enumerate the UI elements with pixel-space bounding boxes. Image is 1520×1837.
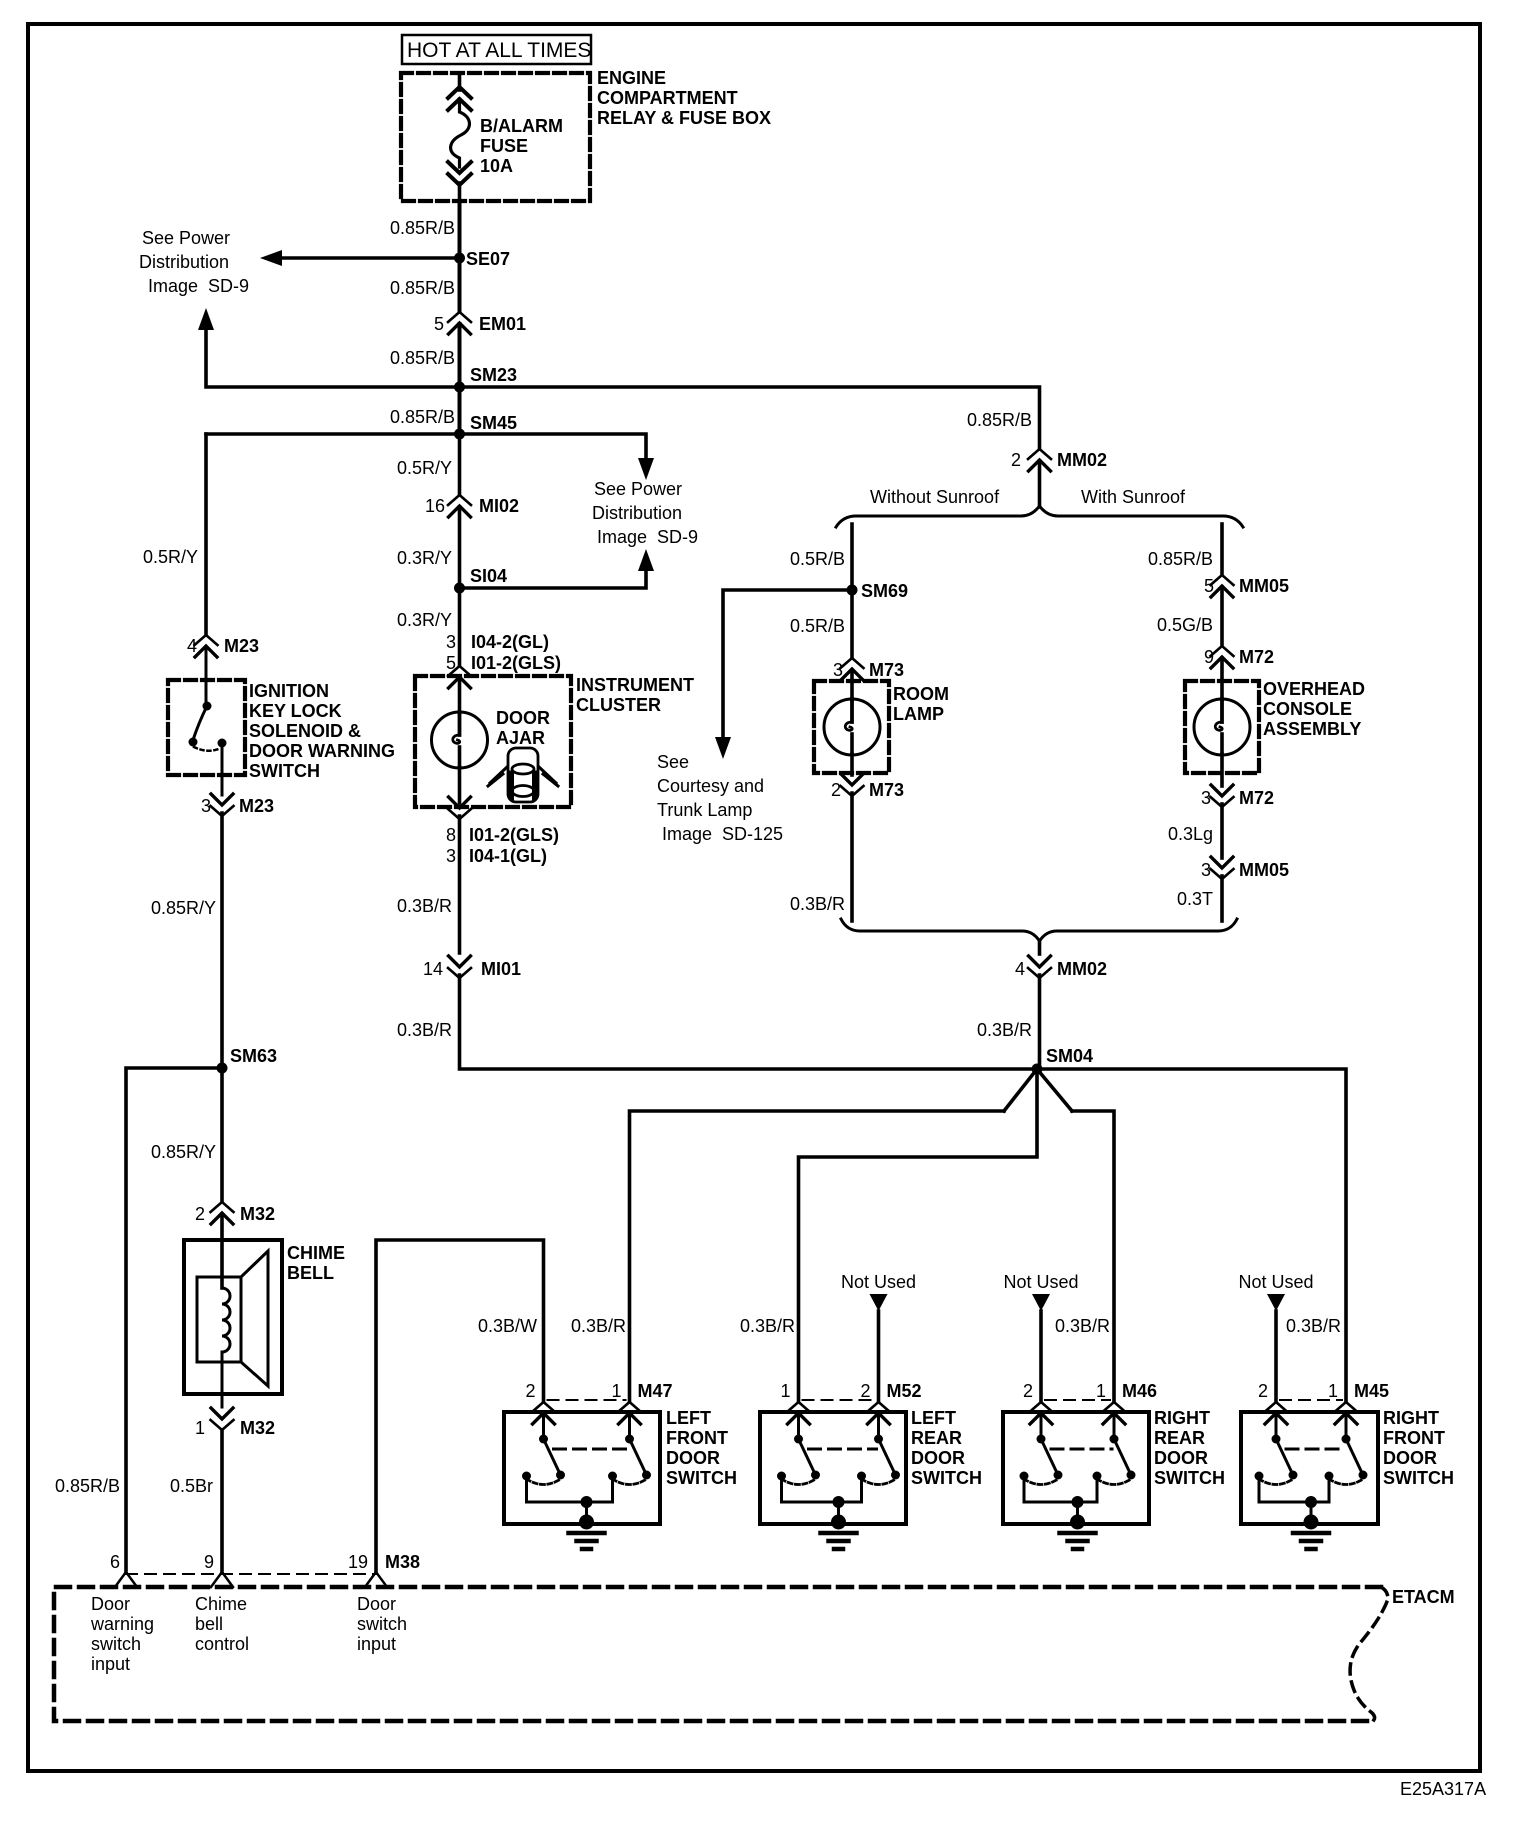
chime bell box (184, 1240, 282, 1394)
room lamp bulb (824, 699, 880, 755)
wire SM69 to courtesy arrow (723, 590, 852, 737)
door ajar car icon (488, 748, 558, 802)
svg-text:M45: M45 (1354, 1381, 1389, 1401)
connector MI01 pin 14 (448, 956, 471, 978)
svg-text:SE07: SE07 (466, 249, 510, 269)
wire 0.3B/R MI01 to SM04 (460, 975, 1038, 1069)
M52 right switch dotted travel arc (862, 1479, 896, 1485)
pin 1 entry chevrons of M47 (618, 1402, 641, 1424)
wire merge brace to MM02-4 (1038, 941, 1042, 954)
svg-text:MI01: MI01 (481, 959, 521, 979)
svg-text:Image SD-9: Image SD-9 (597, 527, 698, 547)
wire 0.85R/B fuse to SE07 (458, 201, 462, 258)
M47 right switch lever end dot (642, 1471, 651, 1480)
svg-text:See Power: See Power (594, 479, 682, 499)
component label LEFT REAR DOOR SWITCH (911, 1408, 982, 1488)
svg-text:DOOR: DOOR (1383, 1448, 1437, 1468)
M45 left switch lever end dot (1289, 1471, 1298, 1480)
M52 ground bus (782, 1501, 862, 1504)
wire from fuse to box edge (458, 183, 462, 201)
svg-text:6: 6 (110, 1552, 120, 1572)
svg-text:With Sunroof: With Sunroof (1081, 487, 1186, 507)
pin 1 entry chevrons of M45 (1335, 1402, 1358, 1424)
door switch M45 box (1241, 1412, 1378, 1524)
svg-text:See Power: See Power (142, 228, 230, 248)
note See Courtesy and Trunk Lamp Image SD-125 (657, 752, 783, 844)
instrument cluster exit chevrons (448, 797, 471, 819)
svg-text:1: 1 (611, 1381, 621, 1401)
M52 right switch contact dot (857, 1472, 866, 1481)
svg-text:INSTRUMENT: INSTRUMENT (576, 675, 694, 695)
M46 left switch common dot (1037, 1435, 1046, 1444)
M45 right switch contact dot (1325, 1472, 1334, 1481)
merge brace to MM02 pin 4 (841, 919, 1237, 941)
svg-text:RIGHT: RIGHT (1154, 1408, 1210, 1428)
wire not used to M52 pin2 (877, 1311, 881, 1401)
M46 right switch lever end dot (1127, 1471, 1136, 1480)
ETACM box (dashed) (54, 1587, 1381, 1721)
M45 right switch lever end dot (1359, 1471, 1368, 1480)
svg-text:M72: M72 (1239, 647, 1274, 667)
connector MM02 pin 4 (1028, 956, 1051, 978)
wire ignition switch out (221, 746, 224, 795)
M45 left switch contact dot (1255, 1472, 1264, 1481)
wire into ignition switch (205, 647, 208, 703)
svg-text:0.5R/Y: 0.5R/Y (143, 547, 198, 567)
svg-text:CHIME: CHIME (287, 1243, 345, 1263)
svg-text:0.3B/R: 0.3B/R (1286, 1316, 1341, 1336)
wire 0.5R/Y SM45 to M23 (204, 434, 208, 634)
wire MM02 to split brace (1038, 461, 1042, 507)
wire 0.3B/R room lamp to merge brace (850, 793, 854, 921)
M52 right contact drop wire (860, 1480, 863, 1502)
svg-text:Distribution: Distribution (139, 252, 229, 272)
M46 mechanical link dashed (1051, 1448, 1112, 1451)
svg-text:2: 2 (860, 1381, 870, 1401)
svg-text:0.85R/Y: 0.85R/Y (151, 898, 216, 918)
svg-text:0.3B/R: 0.3B/R (977, 1020, 1032, 1040)
M47 right switch contact dot (608, 1472, 617, 1481)
wire SM04 run to M47 pin1 (630, 1111, 1005, 1401)
svg-text:0.85R/B: 0.85R/B (55, 1476, 120, 1496)
wire 0.3R/Y MI02 to SI04 (458, 507, 462, 588)
svg-text:Trunk Lamp: Trunk Lamp (657, 800, 752, 820)
svg-text:2: 2 (525, 1381, 535, 1401)
svg-text:CLUSTER: CLUSTER (576, 695, 661, 715)
door switch M46 connector dashed link (1045, 1399, 1110, 1401)
svg-text:SM04: SM04 (1046, 1046, 1093, 1066)
wire room lamp bulb to exit (850, 754, 854, 775)
value label B/ALARM FUSE 10A (480, 116, 563, 176)
svg-text:ROOM: ROOM (893, 684, 949, 704)
ignition key lock solenoid & door warning switch box (dashed) (168, 680, 245, 775)
M46 left switch contact dot (1020, 1472, 1029, 1481)
svg-text:I01-2(GLS): I01-2(GLS) (471, 653, 561, 673)
component label LEFT FRONT DOOR SWITCH (666, 1408, 737, 1488)
wire SM04 run to M46 pin1 (1072, 1111, 1114, 1401)
svg-text:M73: M73 (869, 660, 904, 680)
pin 1 internal wire of M47 (628, 1413, 631, 1435)
svg-text:LAMP: LAMP (893, 704, 944, 724)
wire 0.85R/B EM01 to SM23 (458, 324, 462, 387)
M52 right switch common dot (874, 1435, 883, 1444)
svg-text:14: 14 (423, 959, 443, 979)
svg-text:M73: M73 (869, 780, 904, 800)
svg-text:DOOR WARNING: DOOR WARNING (249, 741, 395, 761)
svg-text:MM02: MM02 (1057, 450, 1107, 470)
svg-text:0.85R/B: 0.85R/B (390, 407, 455, 427)
pin 2 entry chevrons of M46 (1030, 1402, 1053, 1424)
M46 right switch dotted travel arc (1097, 1479, 1131, 1485)
M52 left switch lever (799, 1439, 816, 1475)
svg-text:0.5Br: 0.5Br (170, 1476, 213, 1496)
svg-text:M38: M38 (385, 1552, 420, 1572)
wire SM45 right branch to down arrow (460, 434, 647, 458)
door switch M46 box (1003, 1412, 1149, 1524)
M47 right contact drop wire (611, 1480, 614, 1502)
connector M73 pin 2 exit chevrons (841, 774, 864, 796)
svg-text:Door: Door (91, 1594, 130, 1614)
node SM63 junction (217, 1063, 228, 1074)
ETACM pin 9 chevron (211, 1572, 233, 1587)
svg-text:0.3B/W: 0.3B/W (478, 1316, 537, 1336)
svg-text:Image SD-125: Image SD-125 (662, 824, 783, 844)
svg-text:SWITCH: SWITCH (1154, 1468, 1225, 1488)
door switch M47 box (504, 1412, 660, 1524)
arrow up to See Power Distribution SD-9 (198, 308, 214, 330)
svg-text:0.5G/B: 0.5G/B (1157, 615, 1213, 635)
svg-text:0.85R/B: 0.85R/B (1148, 549, 1213, 569)
ETACM pin 6 chevron (115, 1572, 137, 1587)
M47 right switch dotted travel arc (613, 1479, 647, 1485)
svg-text:SM45: SM45 (470, 413, 517, 433)
svg-text:Door: Door (357, 1594, 396, 1614)
svg-text:M46: M46 (1122, 1381, 1157, 1401)
svg-text:SM63: SM63 (230, 1046, 277, 1066)
ETACM label Door switch input (357, 1594, 407, 1654)
wire 0.3Lg M72 to MM05 (1220, 804, 1224, 858)
M45 ground bus (1259, 1501, 1329, 1504)
svg-text:8: 8 (446, 825, 456, 845)
svg-text:MM02: MM02 (1057, 959, 1107, 979)
not used terminal arrow (M52 pin2) (870, 1294, 888, 1311)
wire lamp to cluster exit (458, 767, 462, 803)
svg-text:LEFT: LEFT (666, 1408, 711, 1428)
chime bell speaker symbol (197, 1251, 268, 1386)
svg-text:Not Used: Not Used (1003, 1272, 1078, 1292)
svg-text:2: 2 (1011, 450, 1021, 470)
svg-text:3: 3 (446, 846, 456, 866)
ground of M45 (1293, 1515, 1329, 1550)
M52 right switch lever end dot (891, 1471, 900, 1480)
connector EM01 pin 5 (448, 312, 471, 334)
component label IGNITION KEY LOCK SOLENOID &amp; DOOR WARNING SWITCH (249, 681, 395, 781)
node SM23 junction (454, 382, 465, 393)
svg-text:0.3R/Y: 0.3R/Y (397, 548, 452, 568)
ground of M47 (569, 1515, 605, 1550)
wire 0.5G/B MM05 to M72 (1220, 587, 1224, 645)
wire 0.3B/W ETACM pin19 to M47 pin2 (376, 1240, 544, 1572)
ignition switch lever (193, 706, 207, 740)
door switch M47 connector dashed link (548, 1399, 626, 1401)
wire 0.85R/B SE07 to EM01 (458, 258, 462, 311)
connector M72 pin 3 exit (1211, 785, 1234, 807)
M47 right switch common dot (625, 1435, 634, 1444)
ETACM box right brace (dashed) (1350, 1587, 1388, 1721)
pin 2 entry chevrons of M47 (532, 1402, 555, 1424)
door switch M52 connector dashed link (803, 1399, 875, 1401)
pin 2 entry chevrons of M45 (1265, 1402, 1288, 1424)
svg-text:0.3B/R: 0.3B/R (571, 1316, 626, 1336)
wire 0.5Br M32 to ETACM pin 9 (220, 1430, 224, 1572)
node SM45 junction (454, 429, 465, 440)
svg-text:3: 3 (833, 660, 843, 680)
connector M23 pin 4 (195, 635, 218, 657)
M45 right contact drop wire (1328, 1480, 1331, 1502)
wire not used to M45 pin2 (1274, 1311, 1278, 1401)
wire 0.85R/Y M23 to SM63 (220, 813, 224, 1068)
wire into overhead console bulb (1220, 658, 1224, 700)
svg-text:0.3Lg: 0.3Lg (1168, 824, 1213, 844)
wire SI04 right branch to up arrow (460, 570, 647, 588)
split brace without/with sunroof (836, 506, 1243, 527)
pin 1 entry chevrons of M52 (787, 1402, 810, 1424)
svg-text:19: 19 (348, 1552, 368, 1572)
overhead console assembly box (dashed) (1185, 681, 1259, 773)
M52 left contact drop wire (780, 1480, 783, 1502)
svg-text:M23: M23 (224, 636, 259, 656)
node SM04 junction (1032, 1064, 1043, 1075)
M45 left contact drop wire (1258, 1480, 1261, 1502)
ground of M46 (1060, 1515, 1096, 1550)
connector MI02 pin 16 (448, 495, 471, 517)
wire 0.85R/B SM23 to SM45 (458, 387, 462, 434)
node SI04 junction (454, 583, 465, 594)
M47 left switch common dot (539, 1435, 548, 1444)
connector M73 pin 3 (841, 658, 864, 680)
svg-text:CONSOLE: CONSOLE (1263, 699, 1352, 719)
svg-text:BELL: BELL (287, 1263, 334, 1283)
svg-text:M32: M32 (240, 1204, 275, 1224)
M45 right switch lever (1346, 1439, 1363, 1475)
wire 0.85R/Y SM63 to M32 (220, 1068, 224, 1201)
ETACM pin dashed link (126, 1573, 376, 1575)
component label INSTRUMENT CLUSTER (576, 675, 694, 715)
M45 ground stub (1310, 1502, 1313, 1519)
svg-text:I01-2(GLS): I01-2(GLS) (469, 825, 559, 845)
svg-text:DOOR: DOOR (911, 1448, 965, 1468)
svg-text:COMPARTMENT: COMPARTMENT (597, 88, 738, 108)
wire 0.5R/Y SM45 to MI02 (458, 434, 462, 494)
svg-text:1: 1 (1096, 1381, 1106, 1401)
svg-text:FUSE: FUSE (480, 136, 528, 156)
wire into door ajar lamp (458, 679, 462, 713)
svg-text:KEY LOCK: KEY LOCK (249, 701, 342, 721)
svg-text:REAR: REAR (1154, 1428, 1205, 1448)
component label RIGHT FRONT DOOR SWITCH (1383, 1408, 1454, 1488)
svg-text:3: 3 (201, 796, 211, 816)
M45 right switch dotted travel arc (1329, 1479, 1363, 1485)
M46 left switch dotted travel arc (1024, 1479, 1058, 1485)
M47 mechanical link dashed (554, 1448, 628, 1451)
not used terminal arrow (M45 pin2) (1267, 1294, 1285, 1311)
connector MM02 pin 2 (1028, 449, 1051, 471)
svg-text:AJAR: AJAR (496, 728, 545, 748)
svg-text:bell: bell (195, 1614, 223, 1634)
svg-text:M32: M32 (240, 1418, 275, 1438)
M46 left switch lever (1041, 1439, 1058, 1475)
svg-text:9: 9 (204, 1552, 214, 1572)
M46 right switch lever (1114, 1439, 1131, 1475)
M46 right switch common dot (1110, 1435, 1119, 1444)
M46 ground bus (1024, 1501, 1097, 1504)
svg-text:Without Sunroof: Without Sunroof (870, 487, 1000, 507)
arrow down to See Power Distribution SD-9 (mid) (638, 458, 654, 480)
svg-text:4: 4 (1015, 959, 1025, 979)
svg-text:0.85R/B: 0.85R/B (390, 218, 455, 238)
svg-text:0.3B/R: 0.3B/R (397, 1020, 452, 1040)
door switch M45 connector dashed link (1280, 1399, 1342, 1401)
pin 1 internal wire of M46 (1113, 1413, 1116, 1435)
component label OVERHEAD CONSOLE ASSEMBLY (1263, 679, 1365, 739)
svg-text:0.3T: 0.3T (1177, 889, 1213, 909)
M45 mechanical link dashed (1286, 1448, 1344, 1451)
M47 ground stub (585, 1502, 588, 1519)
svg-text:Image SD-9: Image SD-9 (148, 276, 249, 296)
note See Power Distribution Image SD-9 (middle) (592, 479, 698, 547)
ETACM pin 19 chevron (365, 1572, 387, 1587)
svg-text:2: 2 (1258, 1381, 1268, 1401)
pin 1 internal wire of M45 (1345, 1413, 1348, 1435)
arrow down to See Courtesy and Trunk Lamp (715, 737, 731, 759)
M52 left switch dotted travel arc (782, 1479, 816, 1485)
svg-text:Chime: Chime (195, 1594, 247, 1614)
svg-text:RELAY & FUSE BOX: RELAY & FUSE BOX (597, 108, 771, 128)
connector M32 pin 2 (211, 1202, 234, 1224)
M45 left switch dotted travel arc (1259, 1479, 1293, 1485)
pin 2 internal wire of M46 (1040, 1413, 1043, 1435)
ignition switch dotted arc (194, 747, 221, 751)
svg-text:5: 5 (434, 314, 444, 334)
ignition switch lever end dot (189, 738, 198, 747)
M45 ground bus junction (1305, 1496, 1317, 1508)
arrow to See Power Distribution SD-9 (left) (260, 250, 282, 266)
wire 0.5R/B brace to SM69 (850, 524, 854, 590)
svg-text:EM01: EM01 (479, 314, 526, 334)
connector MM05 pin 3 (1211, 857, 1234, 879)
svg-text:SWITCH: SWITCH (1383, 1468, 1454, 1488)
connector M23 pin 3 (211, 794, 234, 816)
M52 left switch lever end dot (811, 1471, 820, 1480)
wire 0.85R/B brace to MM05 (1220, 524, 1224, 574)
svg-text:Not Used: Not Used (1238, 1272, 1313, 1292)
svg-text:SWITCH: SWITCH (249, 761, 320, 781)
svg-text:OVERHEAD: OVERHEAD (1263, 679, 1365, 699)
svg-text:HOT AT ALL TIMES: HOT AT ALL TIMES (407, 39, 591, 62)
svg-text:SM23: SM23 (470, 365, 517, 385)
M47 right switch lever (630, 1439, 647, 1475)
ETACM label Chime bell control (195, 1594, 249, 1654)
not used terminal arrow (M46 pin2) (1032, 1294, 1050, 1311)
svg-text:0.3R/Y: 0.3R/Y (397, 610, 452, 630)
wire 0.5R/B SM69 to M73 (850, 590, 854, 657)
svg-text:10A: 10A (480, 156, 513, 176)
svg-text:2: 2 (1023, 1381, 1033, 1401)
M47 ground bus (527, 1501, 613, 1504)
ETACM label Door warning switch input (90, 1594, 154, 1674)
svg-text:M72: M72 (1239, 788, 1274, 808)
svg-text:MM05: MM05 (1239, 576, 1289, 596)
wire SM63 left branch 0.85R/B (126, 1068, 222, 1572)
M46 ground bus junction (1072, 1496, 1084, 1508)
svg-text:SM69: SM69 (861, 581, 908, 601)
wire M32 to chime bell (220, 1214, 224, 1288)
svg-text:MI02: MI02 (479, 496, 519, 516)
svg-text:input: input (357, 1634, 396, 1654)
component label RIGHT REAR DOOR SWITCH (1154, 1408, 1225, 1488)
wire SM23 right branch 0.85R/B (460, 387, 1040, 448)
component label ENGINE COMPARTMENT RELAY &amp; FUSE BOX (597, 68, 771, 128)
svg-text:warning: warning (90, 1614, 154, 1634)
svg-text:0.85R/B: 0.85R/B (967, 410, 1032, 430)
svg-text:0.85R/Y: 0.85R/Y (151, 1142, 216, 1162)
svg-text:DOOR: DOOR (496, 708, 550, 728)
pin 1 entry chevrons of M46 (1103, 1402, 1126, 1424)
door ajar indicator lamp (432, 712, 488, 768)
svg-text:SI04: SI04 (470, 566, 507, 586)
svg-text:IGNITION: IGNITION (249, 681, 329, 701)
svg-text:control: control (195, 1634, 249, 1654)
svg-text:switch: switch (91, 1634, 141, 1654)
arrow up to See Power Distribution (from SI04) (638, 549, 654, 571)
connector M32 pin 1 (211, 1408, 234, 1430)
M45 left switch lever (1276, 1439, 1293, 1475)
svg-text:2: 2 (831, 780, 841, 800)
overhead console lamp bulb (1194, 699, 1250, 755)
M52 mechanical link dashed (809, 1448, 877, 1451)
wire 0.3B/R cluster to MI01 (458, 816, 462, 953)
svg-text:Courtesy and: Courtesy and (657, 776, 764, 796)
wire SM23 left branch to up arrow (206, 330, 460, 387)
component label ROOM LAMP (893, 684, 949, 724)
svg-text:0.85R/B: 0.85R/B (390, 278, 455, 298)
connector MM05 pin 5 (1211, 575, 1234, 597)
room lamp box (dashed) (814, 681, 889, 773)
svg-text:Not Used: Not Used (841, 1272, 916, 1292)
M46 right switch contact dot (1093, 1472, 1102, 1481)
wire 0.3R/Y SI04 to instrument cluster (458, 588, 462, 665)
instrument cluster box (dashed) (415, 676, 571, 807)
M52 ground stub (837, 1502, 840, 1519)
pin 2 entry chevrons of M52 (867, 1402, 890, 1424)
svg-text:2: 2 (195, 1204, 205, 1224)
pin 1 internal wire of M52 (797, 1413, 800, 1435)
ignition switch pivot dot (203, 702, 212, 711)
svg-text:3: 3 (1201, 788, 1211, 808)
pin 2 internal wire of M47 (542, 1413, 545, 1435)
M46 ground stub (1076, 1502, 1079, 1519)
svg-text:DOOR: DOOR (666, 1448, 720, 1468)
svg-text:4: 4 (187, 636, 197, 656)
fuse chevrons top (448, 87, 471, 110)
wire SM04 diagonal right (1037, 1069, 1072, 1111)
svg-text:LEFT: LEFT (911, 1408, 956, 1428)
svg-text:input: input (91, 1654, 130, 1674)
svg-text:Distribution: Distribution (592, 503, 682, 523)
M52 right switch lever (879, 1439, 896, 1475)
svg-text:1: 1 (1328, 1381, 1338, 1401)
M47 left contact drop wire (525, 1480, 528, 1502)
